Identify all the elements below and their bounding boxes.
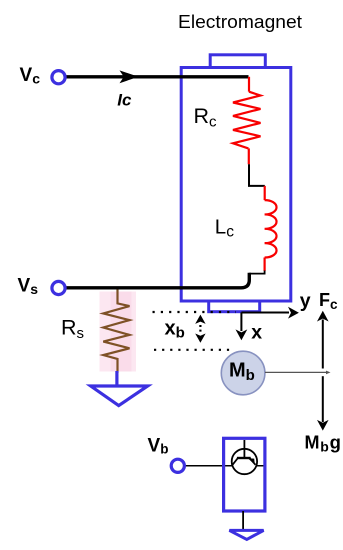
svg-text:Fc: Fc (319, 290, 338, 312)
sensor box (224, 438, 265, 511)
svg-text:Vc: Vc (20, 65, 41, 87)
svg-text:Rs: Rs (61, 316, 84, 343)
svg-text:Mbg: Mbg (305, 432, 342, 455)
resistor Rs highlight (100, 292, 137, 372)
svg-text:y: y (300, 290, 311, 312)
electromagnet top tab (210, 55, 265, 68)
svg-text:x: x (251, 322, 262, 344)
resistor Rs (103, 290, 129, 374)
wire Lc to Vs (264, 258, 266, 272)
resistor Rc (233, 92, 261, 149)
terminal Vs (52, 281, 65, 294)
dimension arrow xb (199, 325, 201, 334)
terminal Vb (171, 459, 184, 472)
wire ball to force axis (265, 371, 328, 373)
wire Vb to sensor (180, 465, 264, 467)
svg-text:xb: xb (165, 318, 185, 342)
inductor Lc (265, 200, 277, 257)
wire sensor to ground (242, 511, 244, 529)
dotted line bottom (154, 349, 232, 351)
svg-text:Vs: Vs (18, 275, 39, 297)
terminal Vc (52, 71, 65, 84)
weight arrow Mbg (322, 376, 324, 422)
svg-text:Ic: Ic (117, 91, 132, 110)
force arrow Fc (322, 320, 324, 369)
wire lead to Rc (248, 77, 250, 92)
svg-text:Electromagnet: Electromagnet (178, 12, 302, 32)
electromagnet bottom tab (209, 301, 260, 312)
dotted line top (153, 311, 237, 313)
current arrow Ic (120, 70, 139, 83)
svg-text:Vb: Vb (148, 436, 169, 457)
sensor transistor symbol (232, 440, 257, 474)
ground for sensor (229, 530, 263, 539)
axis y arrow (241, 312, 289, 314)
wire Rc to Lc (248, 148, 250, 164)
electromagnet body (181, 68, 291, 302)
axis x arrow (240, 312, 242, 331)
ground for Rs (115, 371, 118, 385)
wire Vc to Rc (62, 75, 249, 78)
ball Mb (221, 351, 265, 395)
